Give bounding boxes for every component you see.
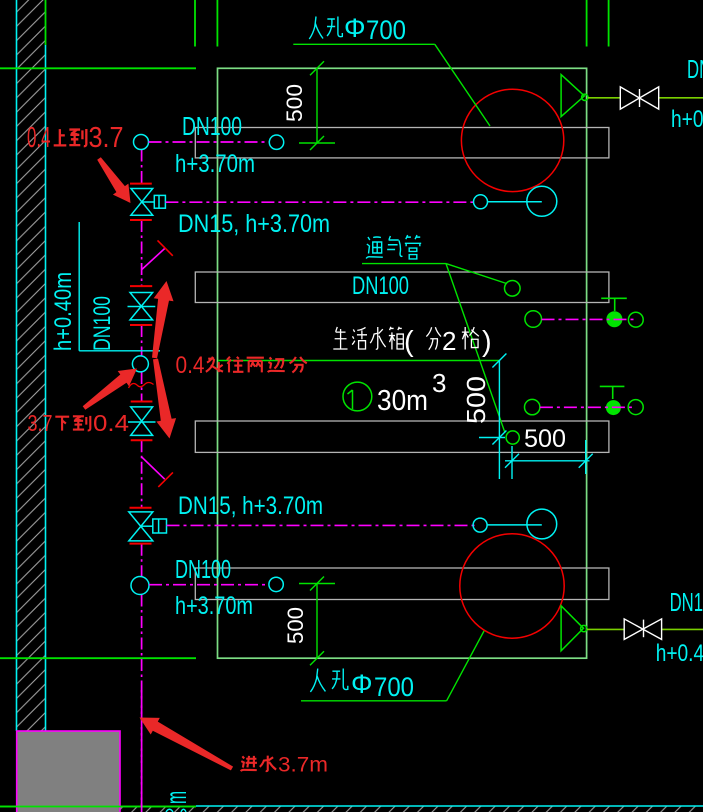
svg-text:DN100: DN100: [175, 554, 231, 584]
grid line horizontal lowest: [0, 806, 196, 808]
riser circle top: [269, 135, 283, 149]
manhole circle bottom: [460, 534, 564, 638]
svg-text:h+3.70m: h+3.70m: [175, 150, 255, 178]
float valve top: small circle: [474, 195, 488, 209]
svg-text:2: 2: [442, 326, 456, 356]
annotation arrow to valve A: [97, 157, 130, 203]
volume text 30m3: [377, 368, 446, 417]
drain open circle bottom right: [628, 400, 643, 415]
manhole leader top: [293, 44, 490, 126]
outlet pipe top: [588, 97, 703, 99]
svg-text:DN100: DN100: [182, 111, 242, 141]
svg-text:0.4: 0.4: [176, 352, 205, 379]
drain dot top: [606, 311, 622, 327]
svg-text:0.4: 0.4: [27, 122, 51, 154]
outlet valve top: [620, 87, 658, 109]
grid line horizontal top: [0, 67, 196, 69]
drain open circle top left: [525, 311, 542, 328]
junction node middle: [132, 356, 148, 372]
circled 1 symbol: [343, 382, 372, 411]
annotation arrow split down: [153, 359, 176, 439]
dimension vertical 500 right (cyan): [479, 354, 506, 480]
basin gray box: [17, 731, 120, 812]
svg-text:0.4: 0.4: [93, 410, 129, 436]
svg-text:Φ: Φ: [344, 13, 366, 43]
grid line vertical top-left wall: [45, 0, 47, 45]
drain open circle top right: [628, 312, 643, 327]
DN100 pipe top: [149, 141, 270, 143]
svg-text:h+0.40m: h+0.40m: [671, 106, 703, 133]
label manhole bottom: 人孔 glyphs + phi 700: [310, 669, 347, 692]
svg-text:Φ: Φ: [351, 669, 373, 699]
svg-text:(: (: [404, 326, 414, 358]
svg-text:DN100: DN100: [89, 296, 116, 351]
left wall edge lines: [17, 0, 46, 731]
svg-text:h+0.40m: h+0.40m: [50, 272, 77, 351]
svg-text:): ): [482, 326, 492, 358]
bottom wall hatch: [120, 806, 703, 812]
svg-text:DN100: DN100: [670, 587, 703, 617]
junction node top: [134, 135, 149, 150]
annotation text 3.7下到0.4: [28, 410, 130, 436]
svg-text:3: 3: [432, 368, 446, 398]
grid line vertical pair top-right: [587, 0, 609, 47]
svg-text:DN100: DN100: [352, 272, 409, 300]
drain fitting bottom: T symbol: [600, 386, 625, 399]
dimension horizontal 500 bottom (cyan): [505, 440, 593, 479]
grid line vertical pair top-left: [195, 0, 217, 47]
tank name 生活水箱(分2格) white glyphs: [333, 327, 479, 350]
dimension 500 bottom (green): [299, 577, 335, 666]
valve D (bottom gate valve): [129, 508, 167, 544]
annotation text 0.4上到3.7: [27, 122, 124, 154]
svg-text:h+0.40m: h+0.40m: [656, 640, 703, 667]
tank label underline: [218, 360, 499, 362]
DN100 pipe bottom: [149, 584, 269, 586]
svg-text:700: 700: [374, 672, 414, 702]
svg-text:500: 500: [283, 607, 308, 644]
valve C (gate valve): [128, 402, 156, 441]
riser circle bottom: [269, 577, 283, 591]
drain fitting top: T symbol: [601, 298, 627, 311]
grid line horizontal bottom: [0, 657, 196, 659]
vent pipe leader: [362, 264, 507, 433]
drain open circle bottom left: [525, 399, 540, 414]
annotation arrow to junction: [83, 369, 137, 410]
label manhole top: 人孔 glyphs + phi 700: [309, 17, 342, 40]
drain pipe bottom: [540, 406, 636, 408]
label bracket left: [79, 222, 160, 351]
outlet triangle bottom: [561, 606, 587, 651]
suction header bar 1: [195, 128, 609, 158]
valve A (top gate valve): [130, 184, 165, 220]
annotation arrow to inlet pipe: [140, 718, 234, 771]
header bar 2: [195, 272, 609, 303]
float valve top: arm: [488, 201, 542, 203]
svg-text:3.7: 3.7: [89, 122, 124, 154]
svg-text:DN15, h+3.70m: DN15, h+3.70m: [178, 492, 323, 520]
outlet pipe bottom: [587, 628, 703, 630]
manhole leader bottom: [301, 631, 484, 701]
label vent pipe 通气管: [366, 235, 421, 259]
water tank outline: [218, 68, 587, 658]
grid line over box: [0, 806, 196, 808]
float valve bottom: ball: [527, 509, 557, 539]
svg-text:500: 500: [282, 84, 307, 122]
letter fragments under bottom line: [166, 809, 186, 812]
annotation arrow split up: [152, 281, 174, 358]
svg-text:500: 500: [461, 376, 491, 424]
vent riser circle top: [505, 281, 521, 297]
bottom wall edge line: [196, 805, 703, 807]
junction node bottom: [131, 577, 149, 595]
drain dot bottom: [606, 400, 621, 415]
manhole circle top: [461, 89, 563, 191]
svg-text:m: m: [160, 791, 193, 804]
svg-text:700: 700: [366, 15, 406, 45]
check symbol upper: [141, 240, 172, 270]
vent riser circle bottom: [506, 431, 519, 444]
svg-text:DN100: DN100: [687, 54, 703, 84]
valve B (gate valve): [128, 286, 156, 325]
DN15 pipe top: [165, 201, 475, 203]
dimension 500 top (green): [299, 61, 335, 150]
annotation text 进水3.7m: [241, 754, 328, 777]
annotation text 0.4处往两边分: [176, 352, 307, 379]
header bar 4: [195, 568, 609, 600]
check symbol lower: [142, 457, 173, 487]
svg-text:30m: 30m: [377, 385, 428, 417]
DN15 pipe bottom: [167, 524, 475, 526]
outlet triangle top: [561, 75, 588, 117]
svg-text:h+3.70m: h+3.70m: [175, 592, 253, 620]
svg-text:3.7m: 3.7m: [278, 754, 328, 777]
svg-text:500: 500: [524, 425, 566, 453]
float valve top: ball: [527, 186, 557, 216]
drain pipe top: [542, 318, 637, 320]
header bar 3: [195, 421, 609, 452]
inlet riser pipe (vertical main): [141, 150, 143, 812]
left wall hatch: [17, 0, 46, 731]
pipe break squiggle: [129, 383, 154, 389]
svg-text:3.7: 3.7: [28, 410, 53, 436]
float valve bottom: arm: [487, 524, 542, 526]
pipe over box area: [141, 690, 143, 812]
svg-text:DN15, h+3.70m: DN15, h+3.70m: [178, 210, 330, 238]
float valve bottom: small circle: [473, 518, 487, 532]
outlet valve bottom: [624, 619, 661, 640]
